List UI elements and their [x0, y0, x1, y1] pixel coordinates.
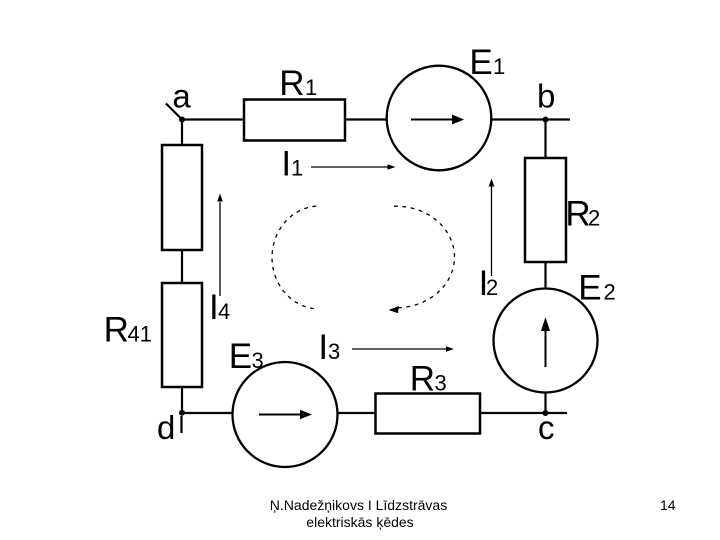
svg-text:14: 14 — [660, 497, 676, 513]
svg-text:elektriskās ķēdes: elektriskās ķēdes — [306, 514, 413, 530]
svg-text:a: a — [172, 78, 191, 115]
svg-text:R: R — [104, 311, 129, 350]
svg-text:R: R — [279, 64, 304, 103]
svg-text:2: 2 — [486, 275, 498, 300]
svg-text:1: 1 — [291, 156, 303, 181]
svg-text:E: E — [229, 337, 252, 376]
svg-text:d: d — [157, 409, 175, 446]
svg-text:3: 3 — [252, 348, 264, 373]
svg-text:R: R — [565, 195, 590, 234]
svg-text:c: c — [538, 409, 555, 446]
svg-text:4: 4 — [218, 299, 230, 324]
svg-text:b: b — [537, 78, 555, 115]
svg-text:Ņ.Nadežņikovs I Līdzstrāvas: Ņ.Nadežņikovs I Līdzstrāvas — [270, 497, 447, 513]
svg-text:I: I — [281, 145, 291, 184]
svg-text:R: R — [410, 360, 435, 399]
svg-text:3: 3 — [328, 339, 340, 364]
svg-text:41: 41 — [128, 322, 152, 347]
svg-text:E: E — [469, 43, 492, 82]
svg-text:2: 2 — [588, 206, 600, 231]
svg-text:1: 1 — [493, 54, 505, 79]
svg-text:2: 2 — [604, 280, 616, 305]
svg-text:E: E — [578, 269, 601, 308]
svg-text:1: 1 — [305, 75, 317, 100]
svg-text:I: I — [318, 328, 328, 367]
svg-text:3: 3 — [435, 371, 447, 396]
